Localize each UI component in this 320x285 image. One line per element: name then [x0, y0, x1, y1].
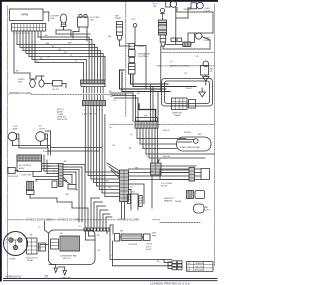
wires top-right lamps — [177, 7, 213, 33]
svg-text:HARNESS-AC: HARNESS-AC — [6, 275, 22, 278]
connector band B pins comb upper — [84, 96, 104, 101]
wire left drop to start device — [14, 72, 30, 74]
harness divider dashed y219.8 — [8, 219, 24, 221]
wire drop from harness divider — [44, 221, 46, 230]
water valve solenoid loop — [160, 8, 164, 12]
svg-text:YL: YL — [146, 156, 148, 158]
wire bundle from J1 down — [14, 31, 41, 73]
solenoid labels — [171, 38, 176, 42]
door switch component — [27, 182, 34, 191]
svg-text:WH: WH — [68, 43, 72, 45]
connector J1 strip two rows — [12, 23, 46, 31]
wires below band C — [137, 128, 158, 166]
svg-text:LIGHT SW: LIGHT SW — [21, 174, 31, 176]
defrost heater tube — [121, 234, 142, 241]
damper motor — [203, 61, 209, 67]
svg-text:CONTROL: CONTROL — [138, 56, 149, 58]
right trunk above band C — [110, 84, 158, 122]
bottom light 2 bulb — [196, 33, 202, 39]
side part left of box — [8, 167, 15, 173]
svg-text:GND: GND — [44, 278, 49, 280]
top scan edge bar — [0, 0, 218, 2]
bus to defrost timer — [120, 70, 197, 92]
lamp socket L/COMP — [78, 17, 89, 27]
wires operating control down — [130, 74, 132, 84]
scattered wire labels 2 — [16, 36, 199, 263]
run capacitor oval — [39, 80, 44, 87]
svg-text:ORANGE: ORANGE — [195, 262, 204, 265]
top light 1 bulb — [170, 1, 176, 7]
bottom double border line — [4, 277, 218, 279]
connector D left fan-out wires — [85, 172, 119, 197]
top light 1 socket box — [166, 2, 171, 8]
legend box — [187, 262, 214, 272]
svg-text:WH: WH — [198, 134, 202, 136]
svg-text:HARNESS-FZ LINER: HARNESS-FZ LINER — [117, 219, 139, 222]
compressor shell — [4, 232, 28, 256]
long bottom wires — [110, 234, 172, 266]
bottom vertical bundle into connectors — [85, 222, 106, 228]
aux valve box — [52, 181, 57, 188]
wire bus turning right toward center trunk — [17, 37, 105, 63]
ptc small box — [53, 81, 63, 87]
svg-text:HARNESS-AC MAIN: HARNESS-AC MAIN — [9, 92, 32, 95]
svg-text:BROWN: BROWN — [195, 270, 203, 272]
svg-text:SEE NOTE: SEE NOTE — [57, 119, 68, 121]
mid-right relay box — [201, 169, 210, 180]
wire from bulb down — [63, 27, 65, 31]
step wire bundle from ff box to ice connector — [33, 155, 59, 182]
ground cab — [54, 268, 58, 273]
svg-text:1 2 3 4 5 6 7 8 9: 1 2 3 4 5 6 7 8 9 — [13, 33, 30, 35]
fresh food control box — [17, 155, 42, 172]
ptc start relay box — [27, 238, 38, 254]
timer thermal cutout triangle — [199, 92, 206, 97]
connector D two-column — [120, 170, 129, 202]
valve lower section — [160, 35, 166, 42]
lamp bus wires — [13, 131, 51, 155]
damper thermal fuse triangle — [203, 77, 210, 82]
wire color labels — [43, 35, 171, 237]
svg-text:STY: STY — [132, 19, 137, 21]
connector band A pins comb — [84, 87, 104, 93]
top light 2 bulb — [197, 2, 204, 9]
svg-text:YL: YL — [111, 255, 113, 257]
connector D right fan-out wires — [129, 169, 190, 210]
connector band A housing — [81, 84, 105, 87]
water valve coil body — [159, 20, 167, 35]
svg-text:HEATER: HEATER — [164, 200, 173, 203]
svg-text:EVAPORATOR FAN: EVAPORATOR FAN — [180, 146, 200, 149]
connector band C — [135, 122, 158, 129]
svg-text:COMP: COMP — [9, 259, 16, 261]
bottom connector row squares — [84, 228, 109, 231]
svg-text:WH-OR: WH-OR — [163, 130, 170, 132]
control board HPRB — [10, 9, 44, 21]
section divider right y52 — [162, 51, 214, 53]
svg-text:HTR: HTR — [152, 235, 157, 237]
evaporator fan stadium — [177, 137, 212, 151]
svg-text:1 2 3 4 5 6 7 8: 1 2 3 4 5 6 7 8 — [82, 114, 97, 116]
svg-text:DOOR SW: DOOR SW — [8, 176, 18, 178]
wire into cond fan from left — [40, 244, 49, 246]
svg-text:WH-YL: WH-YL — [186, 88, 194, 90]
svg-text:HPRB: HPRB — [21, 13, 28, 17]
diagonal merge wires into connector D — [107, 163, 120, 171]
nested L wires to right components — [137, 139, 214, 171]
defrost heater hatched box — [187, 191, 194, 199]
wires below connector D — [121, 202, 123, 220]
condenser fan enclosure — [49, 230, 96, 265]
svg-text:TSTAT: TSTAT — [115, 17, 122, 20]
svg-text:RELAY: RELAY — [27, 259, 34, 262]
interior light bulb B1 — [60, 14, 66, 23]
svg-text:YELLOW: YELLOW — [195, 266, 203, 268]
svg-text:WH-OR: WH-OR — [163, 156, 171, 158]
svg-text:BK RD: BK RD — [161, 186, 168, 188]
lamp 1 drop wire — [175, 7, 177, 44]
fz liner heater resistor — [139, 196, 142, 207]
valve taper — [161, 42, 165, 46]
svg-text:HARNESS-ICE MKR: HARNESS-ICE MKR — [57, 219, 79, 222]
overload protector — [39, 243, 46, 251]
connector band B cell row — [83, 101, 106, 106]
svg-text:60 HZ: 60 HZ — [146, 249, 152, 251]
ice maker fill cup box — [68, 185, 76, 190]
svg-text:DR: DR — [210, 71, 214, 73]
top light 2 socket box — [191, 3, 197, 9]
connector band B pins comb lower — [85, 106, 102, 110]
svg-text:DEV: DEV — [18, 82, 23, 84]
svg-text:2 BTM: 2 BTM — [204, 40, 211, 42]
operating thermostat stack — [129, 44, 135, 50]
harness divider right segment — [160, 222, 200, 224]
svg-text:FF CONTROL: FF CONTROL — [19, 165, 33, 167]
overload component — [195, 191, 205, 199]
bold jumper wire — [139, 109, 156, 111]
defrost thermostat body — [117, 22, 123, 36]
cond fan connector — [51, 239, 59, 249]
svg-text:YL: YL — [70, 55, 72, 57]
ff lamp 2 — [36, 132, 46, 142]
svg-text:AMB: AMB — [13, 128, 18, 131]
svg-text:1/3 HORS: 1/3 HORS — [128, 244, 138, 246]
bottom light 2 socket box — [188, 33, 195, 43]
svg-text:WH-BR: WH-BR — [184, 9, 192, 11]
compressor shell shading — [5, 233, 27, 244]
svg-text:WH-RD: WH-RD — [184, 132, 192, 134]
svg-text:MOTOR: MOTOR — [63, 258, 71, 260]
left inner border — [6, 6, 8, 278]
bimetal rounded component — [194, 204, 205, 213]
defrost timer outer box — [162, 79, 213, 107]
wires lamp to bus — [70, 30, 72, 36]
wire from def tstat down right — [119, 40, 121, 46]
center trunk upper — [84, 37, 106, 80]
svg-text:DUCT: DUCT — [205, 210, 212, 212]
lamp bus to trunk branches — [51, 147, 103, 149]
center trunk lower — [85, 109, 105, 196]
condenser fan motor — [60, 236, 80, 251]
svg-text:WH-BK: WH-BK — [137, 46, 145, 48]
start device oval — [30, 80, 36, 88]
left scan edge bar — [0, 0, 2, 282]
svg-text:WH-YL: WH-YL — [150, 90, 156, 92]
svg-text:WH-BK: WH-BK — [175, 201, 182, 203]
defrost heater chain: terminal — [115, 234, 120, 242]
wire from HPRB to on/off switch — [43, 11, 49, 13]
drain heater resistor — [127, 195, 130, 204]
svg-text:WH-BK: WH-BK — [43, 151, 50, 153]
compressor pins — [9, 238, 13, 242]
wires out of ice connector to trunk — [30, 165, 112, 223]
svg-text:COMP GND: COMP GND — [60, 278, 72, 280]
svg-text:GD-PR: GD-PR — [52, 89, 59, 91]
svg-text:ASSY: ASSY — [19, 167, 25, 170]
section divider right y124.5 — [110, 124, 134, 126]
wires to bottom light — [163, 33, 213, 49]
aux switch hatched box — [183, 42, 191, 47]
ice maker connector strip — [59, 164, 64, 187]
right bottom connector cells — [168, 261, 182, 270]
connector band A cell row — [81, 80, 106, 84]
wires into fan connector — [158, 160, 160, 163]
right inner border — [214, 4, 216, 266]
svg-text:115 V: 115 V — [146, 246, 152, 248]
svg-text:LIGHT: LIGHT — [39, 129, 46, 131]
mid-right terminal rows — [160, 169, 201, 180]
fan connector block — [151, 163, 162, 175]
svg-text:TIMER: TIMER — [174, 115, 181, 117]
svg-text:500 W: 500 W — [146, 244, 152, 246]
band C upper tick row — [136, 118, 158, 121]
defrost timer terminal grid — [172, 98, 188, 110]
mid-right connector strip — [189, 168, 195, 182]
svg-text:SW: SW — [153, 6, 156, 8]
ground comp — [63, 271, 67, 276]
svg-text:12345602 PRINTED IN U.S.A.: 12345602 PRINTED IN U.S.A. — [150, 281, 191, 285]
svg-text:WH: WH — [144, 116, 148, 118]
timer aux contact box — [189, 100, 196, 109]
section divider vertical (console) — [125, 2, 127, 116]
heater end terminal — [144, 234, 151, 241]
ff lamp 1 — [8, 132, 17, 141]
wires below bottom connector — [86, 225, 114, 240]
